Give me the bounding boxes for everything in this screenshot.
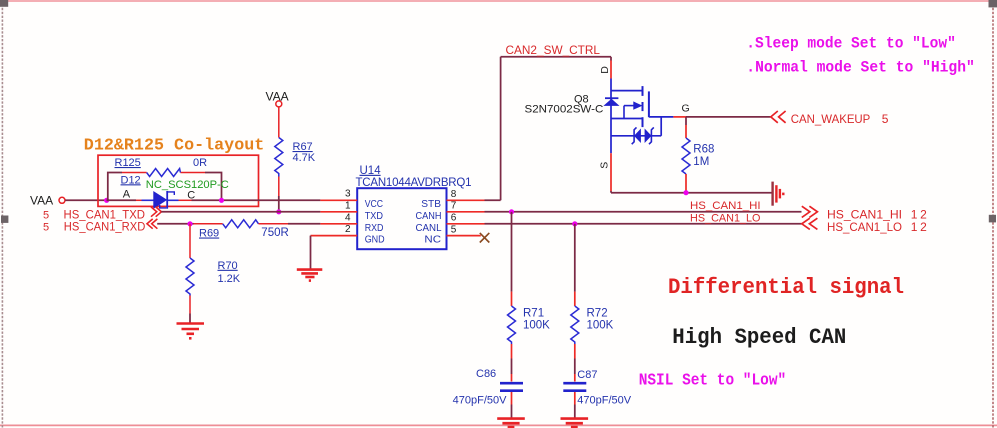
wire R71 to C86 [511, 344, 513, 359]
svg-text:470pF/50V: 470pF/50V [453, 395, 507, 407]
svg-text:5: 5 [882, 112, 889, 126]
pin 3 (VCC) stub [320, 189, 357, 201]
svg-text:HS_CAN1_LO: HS_CAN1_LO [827, 220, 902, 234]
wire gate to CAN_WAKEUP [673, 116, 686, 118]
svg-text:HS_CAN1_RXD: HS_CAN1_RXD [64, 221, 146, 233]
wire R70 vertical [189, 224, 191, 258]
svg-text:R71: R71 [523, 307, 544, 319]
wire TXD row [161, 211, 320, 213]
mosfet body vertical with body diode [610, 79, 612, 154]
svg-text:NC: NC [424, 234, 441, 245]
svg-text:750R: 750R [261, 227, 289, 239]
wire VAA to R67 [278, 107, 280, 138]
wire C87 to ground [574, 392, 576, 405]
svg-text:1M: 1M [693, 156, 709, 168]
svg-text:4.7K: 4.7K [293, 152, 316, 164]
resistor R72 100K [571, 306, 614, 344]
svg-text:VCC: VCC [365, 199, 384, 210]
node junction R70/RXD [187, 221, 192, 226]
pin 7 (CANH) stub [447, 201, 485, 212]
svg-text:5: 5 [451, 224, 457, 235]
svg-text:4: 4 [345, 212, 351, 223]
node junction at D12 anode [104, 198, 109, 203]
pin 4 (RXD) stub [320, 212, 357, 223]
svg-text:STB: STB [421, 199, 441, 210]
port HS_CAN1_TXD (page 5) [43, 207, 161, 222]
svg-text:D12&R125 Co-layout: D12&R125 Co-layout [84, 137, 264, 156]
svg-text:100K: 100K [587, 320, 614, 332]
capacitor C86 470pF/50V [453, 368, 523, 407]
ground (below C87) [561, 419, 589, 427]
svg-text:7: 7 [451, 201, 457, 212]
svg-text:TXD: TXD [365, 211, 383, 222]
wire STB net to CAN2_SW_CTRL [485, 57, 612, 201]
svg-text:D12: D12 [121, 174, 141, 186]
node junction R68/source [683, 190, 688, 195]
port HS_CAN1_LO 12 [802, 218, 927, 234]
svg-text:8: 8 [451, 189, 457, 200]
svg-text:HS_CAN1_LO: HS_CAN1_LO [690, 212, 761, 224]
svg-text:5: 5 [43, 209, 49, 221]
ground (chassis, right of source rail) [773, 182, 784, 206]
node junction at D12 cathode / R125 [219, 198, 224, 203]
channel structure [611, 90, 643, 92]
pin 6 (CANL) stub [447, 213, 485, 224]
wire R68 bottom to source rail [685, 174, 687, 193]
wire R70 to ground [189, 296, 191, 314]
gate bar and lead [648, 91, 650, 117]
drain stub [610, 57, 612, 61]
wire R69 to RXD pin [259, 223, 289, 225]
svg-text:0R: 0R [193, 157, 207, 169]
transistor Q8 S2N7002SW-C [525, 57, 674, 191]
svg-text:S: S [599, 162, 611, 169]
wire D12 cathode to VCC pin [192, 199, 321, 201]
resistor R71 100K [508, 306, 551, 344]
ground (U14 GND) [297, 270, 323, 281]
svg-text:CAN2_SW_CTRL: CAN2_SW_CTRL [506, 45, 601, 57]
resistor R125 0R [115, 157, 208, 177]
svg-text:C86: C86 [476, 368, 496, 380]
diode D12 NC_SCS120P-C (schottky) [107, 174, 229, 208]
wire GND pin down [310, 236, 312, 269]
svg-text:A: A [123, 189, 131, 201]
wire R67 to TXD row [278, 177, 280, 197]
svg-text:C87: C87 [577, 369, 597, 381]
wire RXD row to R69 [157, 223, 193, 225]
junction R67/TXD [276, 209, 281, 214]
wire source rail [611, 192, 772, 194]
svg-text:R125: R125 [115, 157, 141, 169]
port HS_CAN1_HI 12 [802, 206, 927, 221]
svg-text:Differential signal: Differential signal [668, 274, 904, 300]
pin 1 (TXD) stub [320, 200, 357, 211]
gate-source zener pair [660, 117, 662, 136]
svg-text:R72: R72 [587, 307, 608, 319]
svg-text:High Speed CAN: High Speed CAN [672, 324, 846, 350]
pin 8 (STB) stub [447, 189, 485, 200]
svg-text:2: 2 [345, 224, 351, 235]
wire R72 to C87 [574, 344, 576, 359]
svg-text:HS_CAN1_HI: HS_CAN1_HI [690, 200, 761, 212]
wire R125 branch (left vertical, top rail, right vertical) [107, 173, 222, 201]
svg-text:12: 12 [911, 220, 927, 234]
svg-text:GND: GND [365, 234, 385, 245]
svg-text:CANH: CANH [416, 211, 442, 222]
body arrow [624, 105, 635, 107]
node junction R72/CANL [572, 221, 577, 226]
svg-text:S2N7002SW-C: S2N7002SW-C [525, 104, 604, 116]
svg-text:R69: R69 [199, 228, 219, 240]
svg-text:TCAN1044AVDRBRQ1: TCAN1044AVDRBRQ1 [356, 177, 472, 189]
svg-text:U14: U14 [360, 165, 382, 177]
svg-text:1.2K: 1.2K [218, 273, 241, 285]
svg-text:5: 5 [43, 221, 49, 233]
wire R68 top [685, 117, 687, 125]
annotation box D12&R125 Co-layout [84, 137, 264, 207]
ground (below R70) [177, 324, 205, 339]
svg-text:470pF/50V: 470pF/50V [577, 395, 631, 407]
svg-text:CAN_WAKEUP: CAN_WAKEUP [791, 112, 871, 126]
svg-text:NSIL Set to "Low": NSIL Set to "Low" [639, 370, 787, 389]
svg-text:VAA: VAA [30, 193, 53, 207]
svg-text:.Sleep mode Set to "Low": .Sleep mode Set to "Low" [746, 34, 956, 52]
pin 5 (NC) stub with no-connect X [447, 224, 490, 242]
resistor R70 1.2K [186, 258, 241, 296]
source stub [610, 153, 612, 191]
resistor R68 1M [682, 138, 714, 174]
power VAA (left) [30, 193, 65, 207]
svg-text:G: G [682, 103, 690, 115]
svg-text:1: 1 [345, 200, 351, 211]
svg-text:D: D [599, 66, 611, 74]
wire CANL row to port [485, 223, 802, 225]
wire CANH junction down to R71 [511, 212, 513, 292]
wire CANL junction down to R72 [574, 224, 576, 292]
node junction R71/CANH [509, 209, 514, 214]
resistor R69 750R [199, 220, 289, 240]
capacitor C87 470pF/50V [563, 369, 631, 407]
svg-text:R68: R68 [693, 143, 714, 155]
IC U14 TCAN1044AVDRBRQ1 [356, 165, 472, 249]
port CAN_WAKEUP 5 [771, 111, 889, 126]
port HS_CAN1_RXD (page 5) [43, 219, 157, 234]
svg-text:RXD: RXD [365, 223, 384, 234]
svg-text:100K: 100K [523, 320, 550, 332]
wire C86 to ground [511, 392, 513, 405]
power VAA (top, above R67) [266, 90, 289, 107]
resistor R67 4.7K [275, 138, 316, 177]
pin 2 (GND) stub [311, 224, 358, 235]
ground (below C86) [497, 419, 525, 427]
svg-text:.Normal mode Set to "High": .Normal mode Set to "High" [746, 59, 975, 77]
svg-text:R70: R70 [218, 260, 238, 272]
wire CANH row to port [485, 211, 802, 213]
svg-text:6: 6 [451, 213, 457, 224]
svg-text:3: 3 [345, 189, 351, 200]
svg-text:CANL: CANL [416, 223, 442, 234]
wire VAA-left to D12 anode junction [65, 199, 106, 201]
svg-text:HS_CAN1_TXD: HS_CAN1_TXD [64, 209, 146, 221]
